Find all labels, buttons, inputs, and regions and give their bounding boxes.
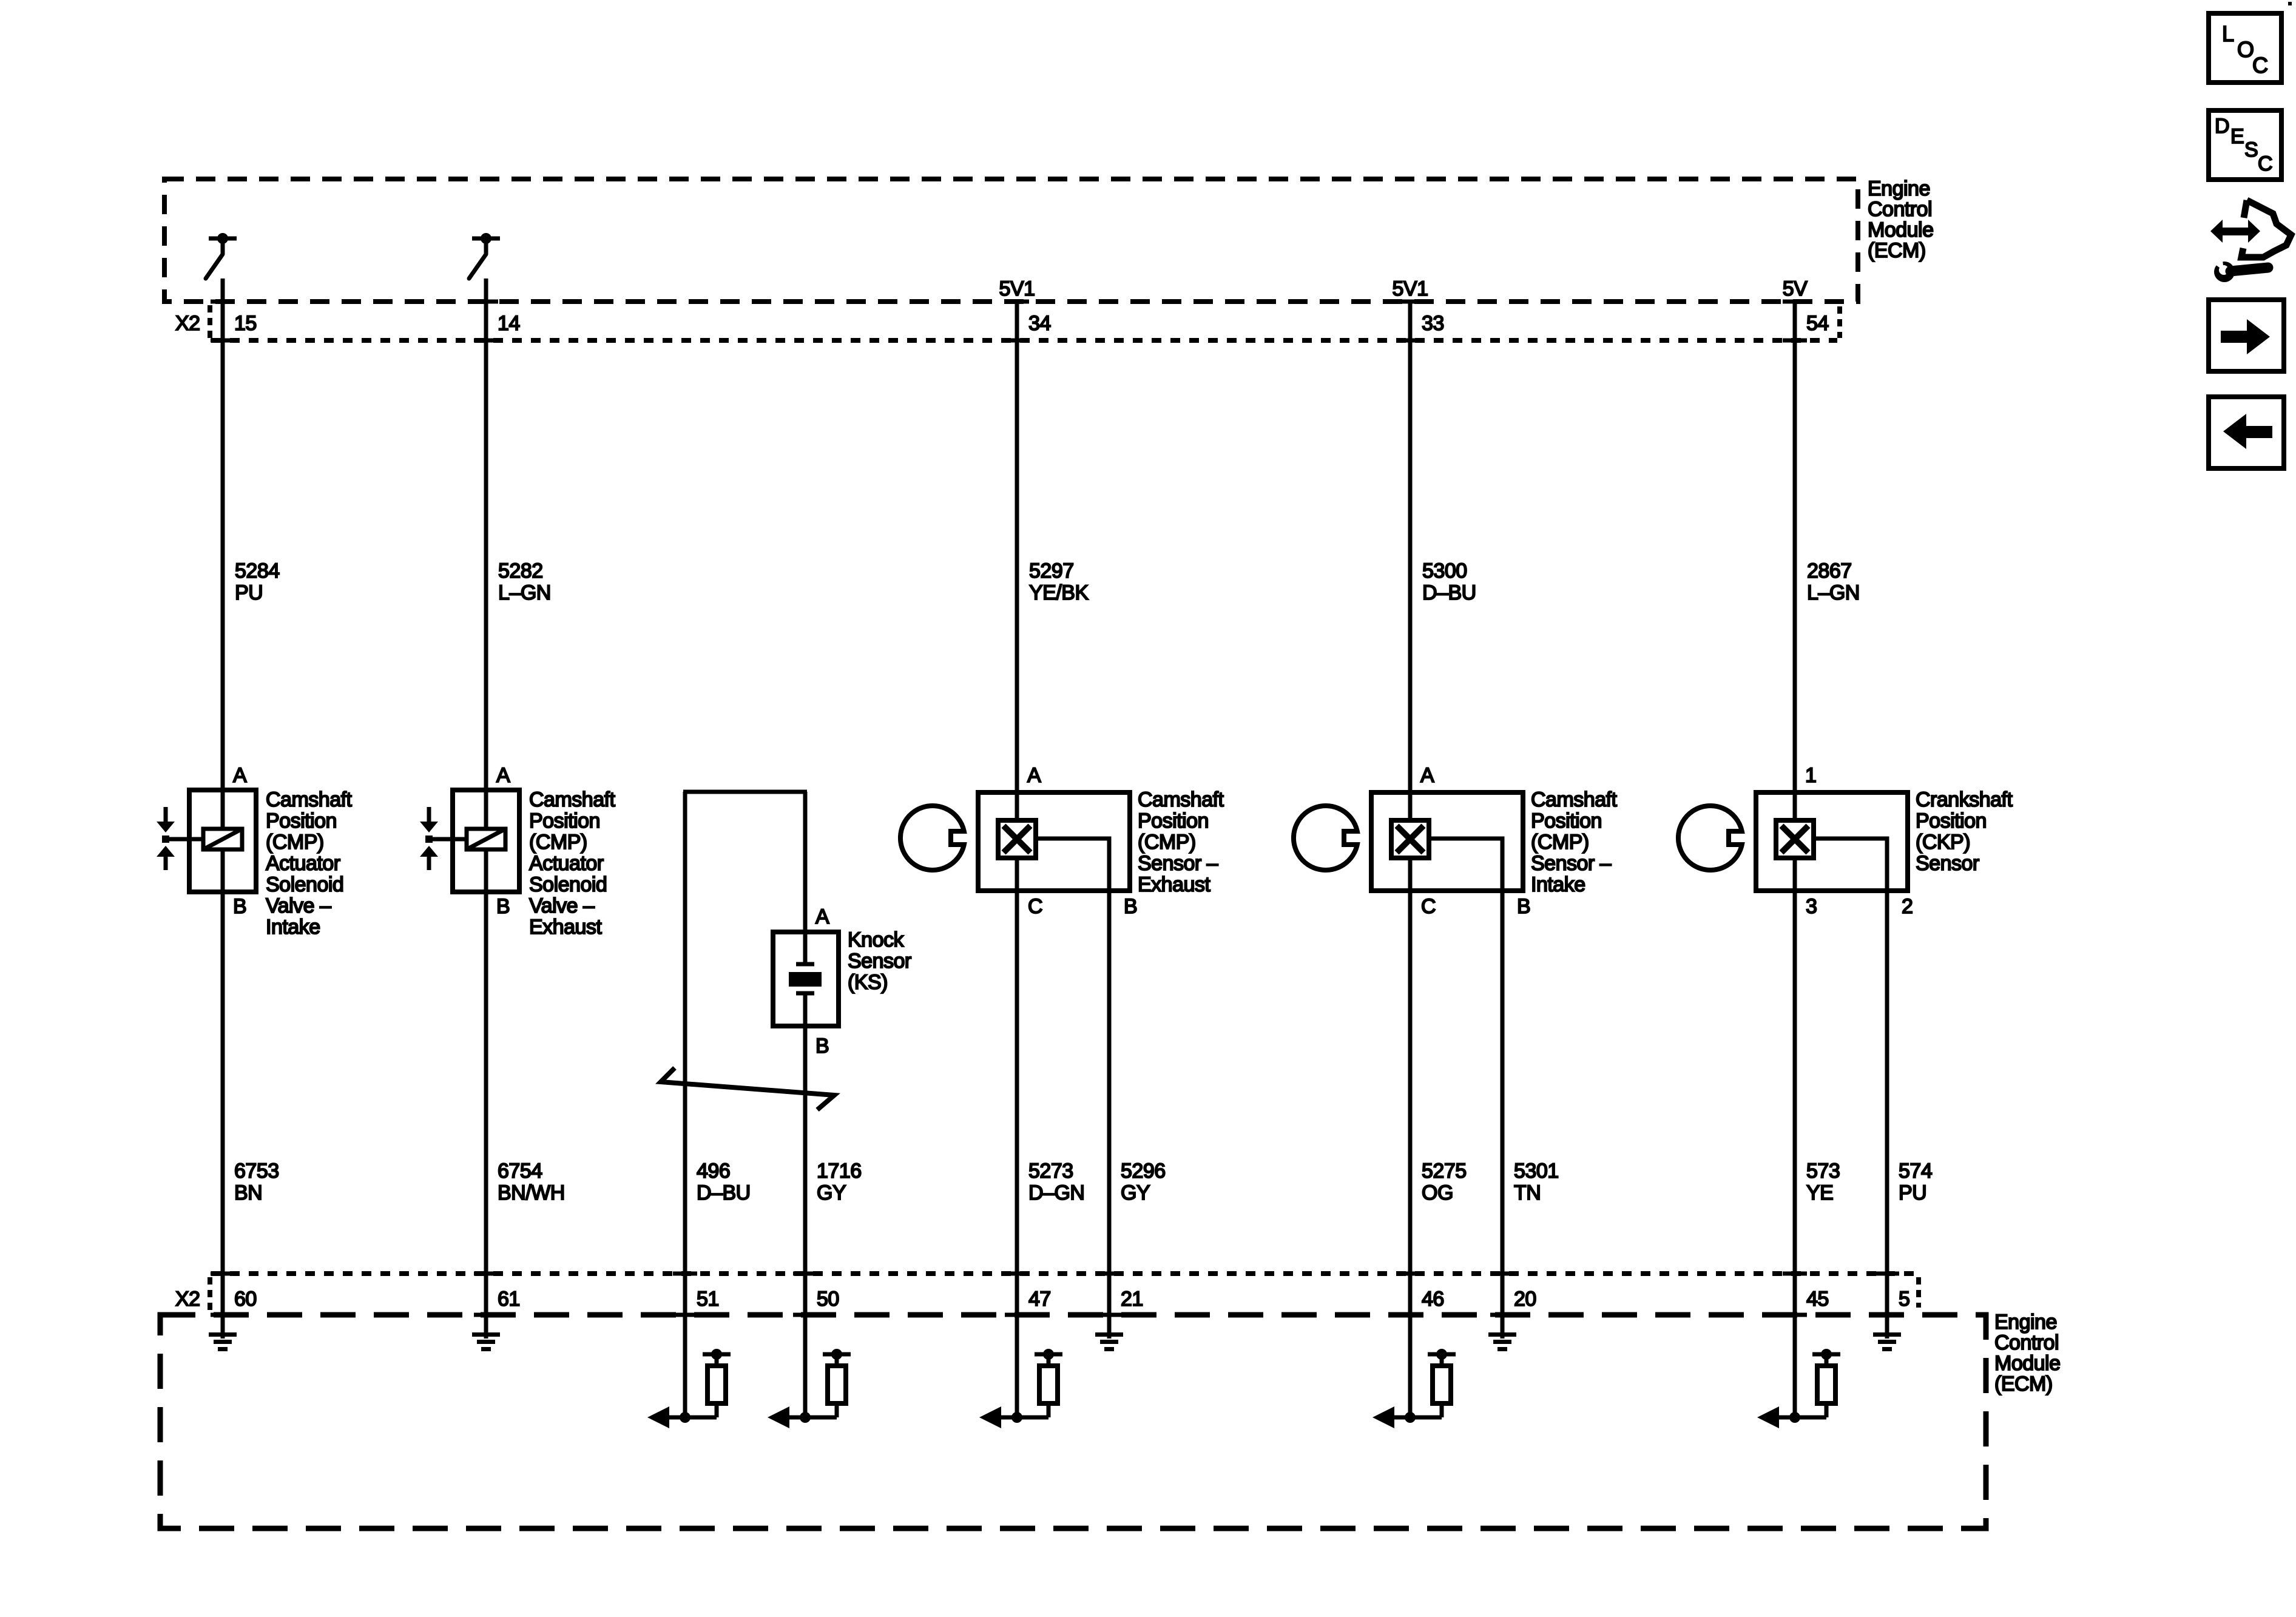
svg-text:O: O [2237, 37, 2254, 62]
svg-text:GY: GY [817, 1181, 846, 1204]
svg-text:A: A [815, 905, 829, 928]
svg-text:Crankshaft: Crankshaft [1916, 788, 2013, 811]
svg-text:5282: 5282 [498, 559, 543, 582]
svg-text:(CMP): (CMP) [529, 831, 587, 854]
svg-text:B: B [1124, 895, 1137, 918]
svg-text:6754: 6754 [498, 1160, 542, 1183]
svg-text:Sensor: Sensor [848, 950, 911, 973]
svg-text:Camshaft: Camshaft [1138, 788, 1224, 811]
svg-text:Engine: Engine [1994, 1311, 2057, 1334]
svg-text:TN: TN [1514, 1181, 1541, 1204]
svg-text:D–BU: D–BU [697, 1181, 751, 1204]
svg-text:20: 20 [1514, 1288, 1536, 1311]
svg-text:Position: Position [1916, 809, 1987, 832]
svg-text:46: 46 [1422, 1288, 1444, 1311]
svg-text:1716: 1716 [817, 1160, 862, 1183]
svg-text:Module: Module [1868, 218, 1934, 241]
svg-text:X2: X2 [175, 1288, 200, 1311]
svg-text:5V1: 5V1 [999, 277, 1035, 300]
svg-text:Control: Control [1868, 198, 1932, 221]
svg-text:Control: Control [1994, 1331, 2059, 1354]
svg-text:(CKP): (CKP) [1916, 831, 1970, 854]
svg-text:Camshaft: Camshaft [266, 788, 353, 811]
svg-text:YE: YE [1806, 1181, 1833, 1204]
svg-text:YE/BK: YE/BK [1029, 581, 1089, 604]
svg-text:B: B [1517, 895, 1530, 918]
svg-text:Knock: Knock [848, 928, 904, 951]
svg-text:2: 2 [1902, 895, 1913, 918]
svg-text:Position: Position [266, 809, 337, 832]
svg-text:B: B [815, 1035, 829, 1058]
svg-text:5273: 5273 [1028, 1160, 1073, 1183]
svg-text:573: 573 [1806, 1160, 1840, 1183]
svg-text:Camshaft: Camshaft [529, 788, 616, 811]
svg-text:45: 45 [1806, 1288, 1829, 1311]
svg-text:Valve –: Valve – [266, 894, 331, 917]
svg-text:496: 496 [697, 1160, 730, 1183]
svg-text:34: 34 [1028, 312, 1051, 335]
svg-text:Actuator: Actuator [266, 852, 340, 875]
svg-text:Position: Position [1138, 809, 1209, 832]
svg-text:Solenoid: Solenoid [266, 873, 343, 896]
svg-text:BN/WH: BN/WH [498, 1181, 565, 1204]
svg-text:C: C [2252, 53, 2268, 78]
svg-text:5V1: 5V1 [1393, 277, 1428, 300]
svg-text:5275: 5275 [1422, 1160, 1467, 1183]
svg-text:5296: 5296 [1121, 1160, 1166, 1183]
svg-text:5: 5 [1899, 1288, 1909, 1311]
svg-text:Sensor –: Sensor – [1531, 852, 1612, 875]
svg-text:L: L [2222, 21, 2234, 46]
svg-text:OG: OG [1422, 1181, 1453, 1204]
svg-text:5297: 5297 [1029, 559, 1074, 582]
svg-text:Exhaust: Exhaust [529, 916, 602, 939]
svg-text:5284: 5284 [235, 559, 280, 582]
svg-text:X2: X2 [175, 312, 200, 335]
svg-text:D–GN: D–GN [1028, 1181, 1084, 1204]
svg-text:Position: Position [1531, 809, 1602, 832]
svg-text:A: A [496, 764, 510, 787]
svg-text:574: 574 [1899, 1160, 1932, 1183]
svg-text:(CMP): (CMP) [1138, 831, 1196, 854]
svg-text:2867: 2867 [1807, 559, 1852, 582]
svg-text:(ECM): (ECM) [1994, 1372, 2053, 1396]
svg-text:C: C [2258, 152, 2272, 175]
svg-text:(CMP): (CMP) [266, 831, 324, 854]
svg-text:Module: Module [1994, 1352, 2061, 1375]
svg-text:A: A [233, 764, 247, 787]
svg-text:PU: PU [1899, 1181, 1926, 1204]
svg-text:(KS): (KS) [848, 971, 888, 994]
svg-text:L–GN: L–GN [1807, 581, 1860, 604]
svg-text:1: 1 [1805, 764, 1816, 787]
svg-text:3: 3 [1806, 895, 1817, 918]
svg-text:C: C [1421, 895, 1436, 918]
svg-text:Intake: Intake [266, 916, 320, 939]
svg-text:51: 51 [697, 1288, 719, 1311]
svg-text:54: 54 [1806, 312, 1829, 335]
svg-text:Actuator: Actuator [529, 852, 604, 875]
svg-text:C: C [1028, 895, 1042, 918]
svg-text:Intake: Intake [1531, 873, 1585, 896]
svg-text:5V: 5V [1783, 277, 1808, 300]
svg-text:Engine: Engine [1868, 177, 1930, 200]
svg-text:L–GN: L–GN [498, 581, 551, 604]
svg-text:Position: Position [529, 809, 600, 832]
svg-text:6753: 6753 [234, 1160, 279, 1183]
svg-text:21: 21 [1121, 1288, 1143, 1311]
svg-text:A: A [1420, 764, 1434, 787]
svg-text:Exhaust: Exhaust [1138, 873, 1210, 896]
svg-text:S: S [2244, 138, 2258, 161]
svg-text:PU: PU [235, 581, 263, 604]
svg-text:Valve –: Valve – [529, 894, 595, 917]
svg-text:33: 33 [1422, 312, 1444, 335]
svg-text:D–BU: D–BU [1422, 581, 1476, 604]
svg-text:BN: BN [234, 1181, 262, 1204]
svg-text:5301: 5301 [1514, 1160, 1559, 1183]
svg-text:15: 15 [234, 312, 257, 335]
svg-text:A: A [1027, 764, 1041, 787]
svg-text:5300: 5300 [1422, 559, 1467, 582]
svg-text:Sensor –: Sensor – [1138, 852, 1218, 875]
svg-text:E: E [2230, 125, 2244, 148]
svg-text:47: 47 [1028, 1288, 1051, 1311]
svg-text:61: 61 [498, 1288, 520, 1311]
svg-text:D: D [2215, 115, 2229, 138]
svg-text:50: 50 [817, 1288, 839, 1311]
svg-text:Camshaft: Camshaft [1531, 788, 1618, 811]
svg-text:Solenoid: Solenoid [529, 873, 607, 896]
svg-text:B: B [233, 895, 246, 918]
svg-text:14: 14 [498, 312, 520, 335]
svg-text:60: 60 [234, 1288, 257, 1311]
svg-text:GY: GY [1121, 1181, 1150, 1204]
svg-text:(CMP): (CMP) [1531, 831, 1589, 854]
svg-text:Sensor: Sensor [1916, 852, 1979, 875]
svg-text:B: B [496, 895, 510, 918]
svg-text:(ECM): (ECM) [1868, 239, 1926, 262]
